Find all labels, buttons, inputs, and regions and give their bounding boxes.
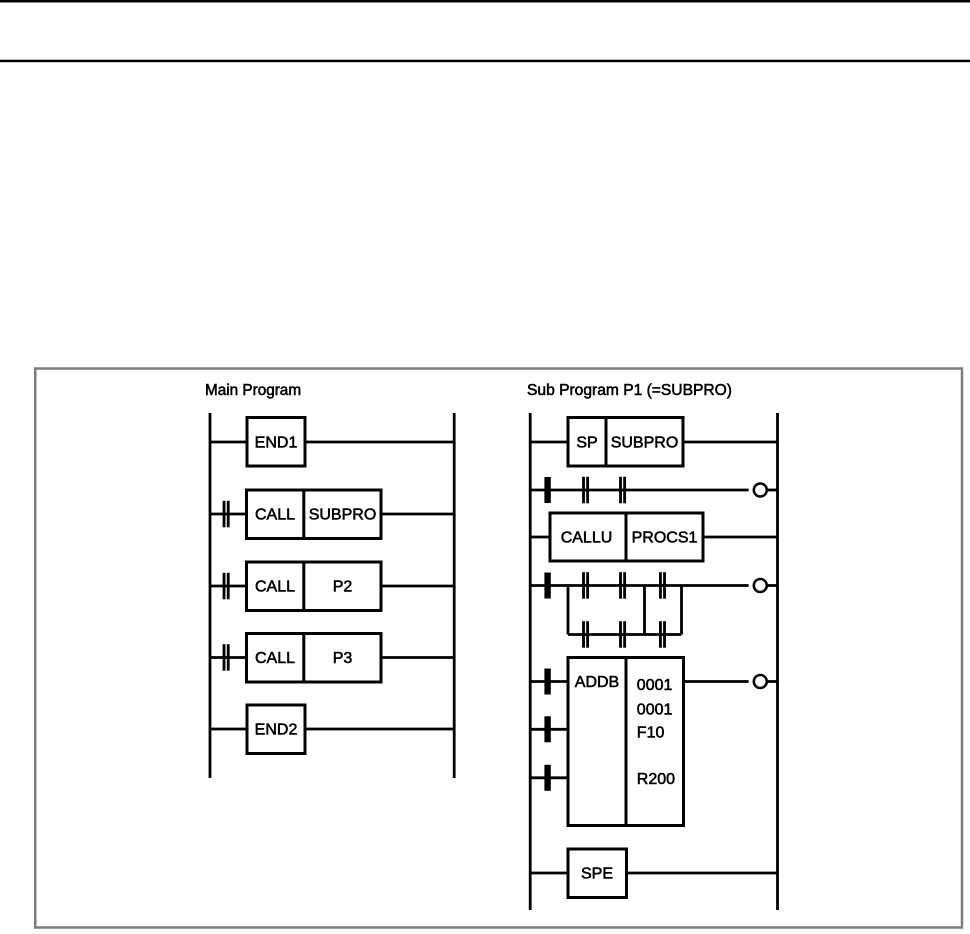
svg-text:ADDB: ADDB [575, 674, 619, 691]
svg-text:CALL: CALL [255, 507, 295, 524]
svg-text:F10: F10 [637, 724, 665, 741]
svg-text:P2: P2 [333, 579, 353, 596]
svg-text:CALL: CALL [255, 579, 295, 596]
svg-text:P3: P3 [333, 650, 353, 667]
svg-text:SUBPRO: SUBPRO [309, 507, 377, 524]
svg-text:END2: END2 [255, 722, 298, 739]
svg-text:R200: R200 [637, 771, 675, 788]
svg-text:CALLU: CALLU [561, 530, 613, 547]
svg-text:Sub Program P1 (=SUBPRO): Sub Program P1 (=SUBPRO) [527, 382, 732, 399]
svg-text:SP: SP [576, 435, 597, 452]
svg-text:0001: 0001 [637, 677, 673, 694]
svg-text:PROCS1: PROCS1 [632, 530, 698, 547]
svg-text:SUBPRO: SUBPRO [611, 435, 679, 452]
svg-text:Main Program: Main Program [205, 382, 301, 399]
svg-text:0001: 0001 [637, 702, 673, 719]
svg-text:END1: END1 [255, 435, 298, 452]
svg-text:CALL: CALL [255, 650, 295, 667]
svg-text:SPE: SPE [581, 866, 613, 883]
